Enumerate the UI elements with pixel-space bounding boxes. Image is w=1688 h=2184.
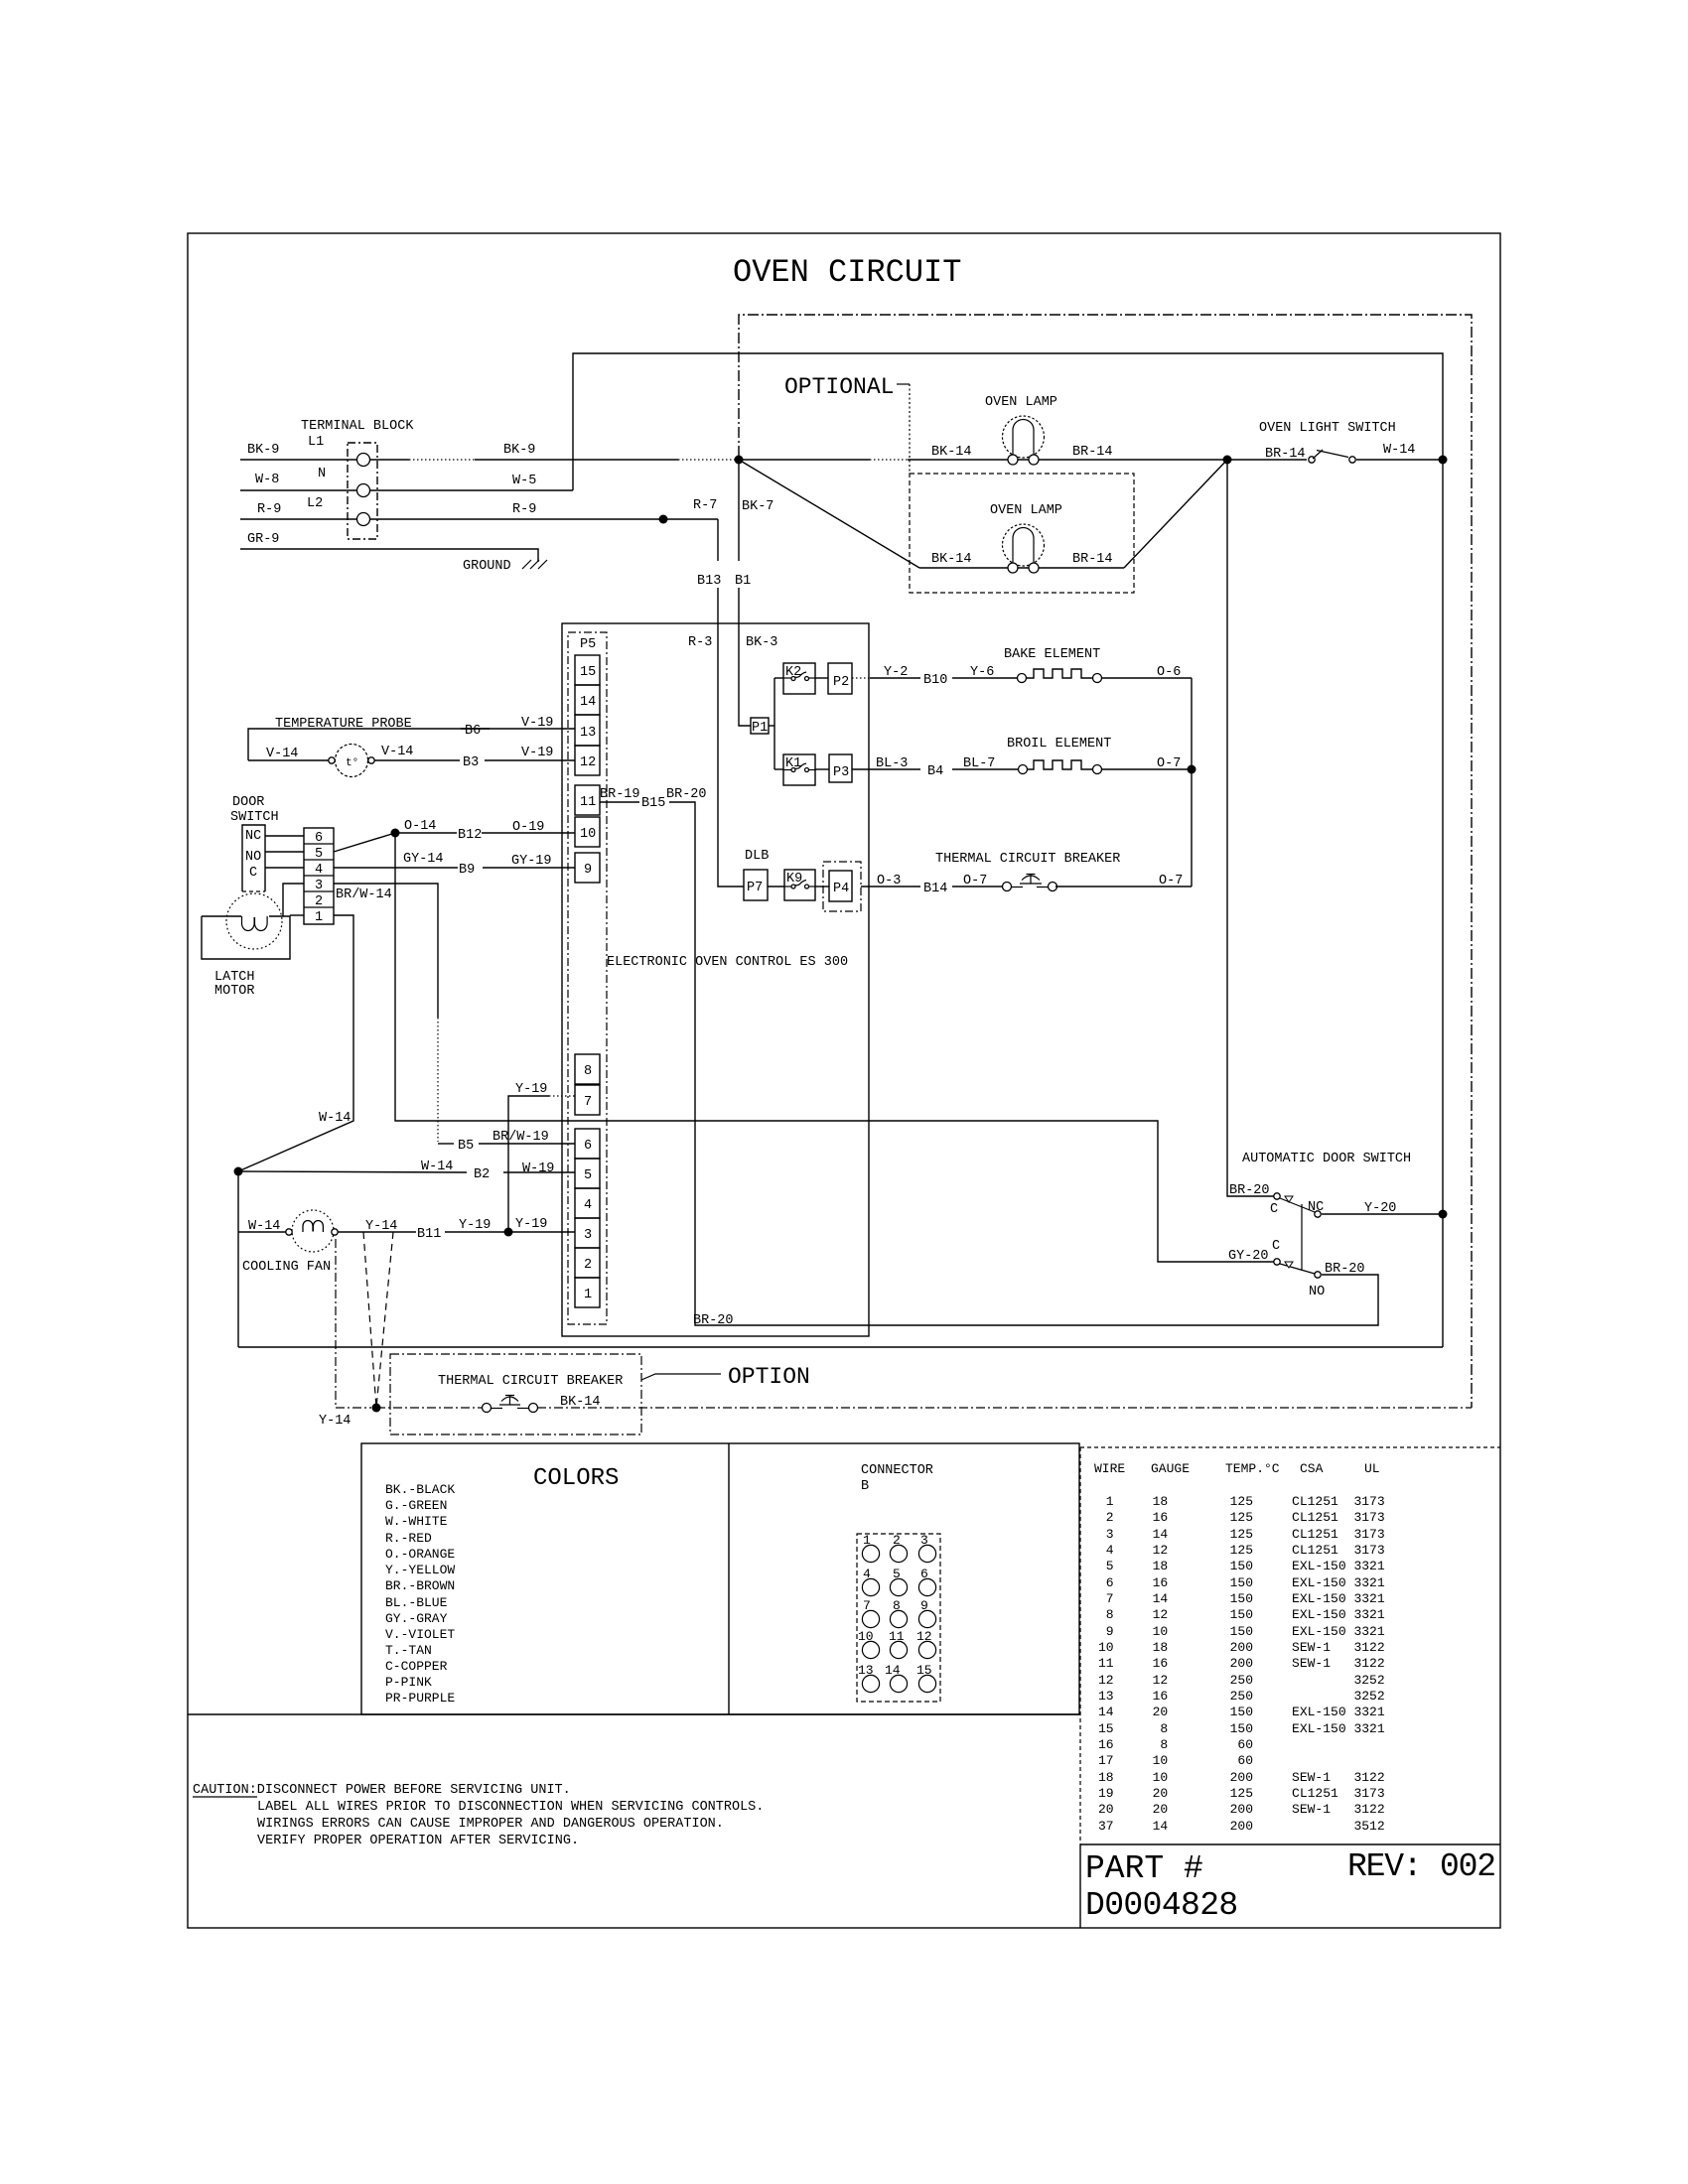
svg-text:12: 12: [916, 1629, 932, 1644]
svg-text:B2: B2: [474, 1167, 490, 1182]
P5 pin 6: [575, 1129, 600, 1159]
svg-text:12: 12: [580, 755, 596, 770]
optional leader tick: [897, 383, 910, 385]
svg-text:BR-20: BR-20: [666, 787, 707, 802]
svg-text:NC: NC: [1308, 1200, 1324, 1215]
svg-text:V-19: V-19: [521, 716, 553, 731]
junction Y-14 optional: [372, 1404, 381, 1413]
svg-text:BAKE ELEMENT: BAKE ELEMENT: [1004, 647, 1100, 662]
svg-text:BK.-BLACK: BK.-BLACK: [385, 1482, 455, 1497]
svg-text:D0004828: D0004828: [1085, 1887, 1238, 1924]
svg-text:SWITCH: SWITCH: [230, 810, 279, 825]
wire P7-K9: [768, 886, 784, 887]
svg-text:P3: P3: [833, 765, 849, 780]
svg-text:O-19: O-19: [512, 820, 544, 835]
wire table frame: [1080, 1446, 1500, 1448]
P5 pin 8: [575, 1054, 600, 1084]
svg-text:19 20 125 CL125: 19 20 125 CL1251 3173: [1098, 1786, 1385, 1801]
svg-text:P-PINK: P-PINK: [385, 1675, 432, 1690]
svg-text:7 14 150 EXL-15: 7 14 150 EXL-150 3321: [1098, 1591, 1385, 1606]
svg-text:GAUGE: GAUGE: [1151, 1461, 1190, 1476]
svg-text:O.-ORANGE: O.-ORANGE: [385, 1547, 455, 1562]
svg-text:Y-14: Y-14: [365, 1219, 397, 1234]
svg-text:W-14: W-14: [421, 1160, 453, 1174]
wire diagonal from lamp2 right: [1124, 460, 1227, 568]
cooling fan: [286, 1210, 338, 1252]
svg-text:P5: P5: [580, 637, 596, 652]
svg-text:BR/W-14: BR/W-14: [336, 887, 392, 902]
svg-text:NC: NC: [245, 829, 261, 844]
svg-text:BR-19: BR-19: [600, 787, 640, 802]
svg-text:11: 11: [889, 1629, 905, 1644]
broil element: [1019, 760, 1102, 774]
connector pin numbers: [858, 1533, 932, 1678]
temperature probe bulb: [329, 745, 374, 777]
terminal block body: [348, 443, 377, 539]
svg-text:V-19: V-19: [521, 746, 553, 760]
wire pin3 left to latch: [283, 884, 304, 916]
wire Y-19 riser to pin 7: [508, 1096, 549, 1232]
svg-text:TERMINAL BLOCK: TERMINAL BLOCK: [301, 419, 414, 434]
P5 pin 14: [575, 685, 600, 715]
wire B5 / BR/W-19 to pin 6: [438, 1143, 454, 1145]
svg-text:GY-19: GY-19: [511, 854, 552, 869]
svg-text:BR-14: BR-14: [1072, 445, 1113, 460]
svg-text:P4: P4: [833, 882, 849, 896]
svg-text:BK-9: BK-9: [247, 443, 279, 458]
svg-text:TEMPERATURE PROBE: TEMPERATURE PROBE: [275, 717, 412, 732]
optional leader dotted drop: [909, 384, 911, 474]
svg-text:R-9: R-9: [512, 502, 536, 517]
svg-text:Y-19: Y-19: [515, 1082, 547, 1097]
svg-text:10: 10: [580, 827, 596, 842]
svg-text:Y-20: Y-20: [1364, 1201, 1396, 1216]
wire NO to pin5: [265, 851, 304, 853]
svg-text:W-5: W-5: [512, 474, 536, 488]
relay coil P2: [828, 663, 852, 694]
svg-text:THERMAL CIRCUIT BREAKER: THERMAL CIRCUIT BREAKER: [935, 852, 1120, 867]
wire GR-9: [240, 549, 538, 562]
svg-text:R-3: R-3: [688, 635, 712, 650]
wire W-8 / W-5: [240, 489, 573, 491]
switch link bar: [1301, 1204, 1303, 1271]
latch motor body: [202, 916, 290, 959]
svg-text:PART #: PART #: [1085, 1850, 1203, 1887]
svg-text:13 16 250: 13 16 250 3252: [1098, 1689, 1385, 1704]
svg-text:BK-3: BK-3: [746, 635, 777, 650]
svg-text:R-9: R-9: [257, 502, 281, 517]
svg-text:W.-WHITE: W.-WHITE: [385, 1514, 448, 1529]
svg-text:W-14: W-14: [319, 1111, 351, 1126]
svg-text:O-7: O-7: [1157, 756, 1181, 771]
part number box: [1080, 1843, 1500, 1845]
svg-text:2: 2: [584, 1258, 592, 1273]
terminal circles: [357, 454, 370, 467]
P5 pin 15: [575, 655, 600, 685]
wire Y-20: [1322, 1213, 1443, 1215]
wire BL-3/B4/BL-7 broil row: [852, 768, 920, 770]
svg-text:V.-VIOLET: V.-VIOLET: [385, 1627, 455, 1642]
svg-text:3: 3: [920, 1533, 928, 1548]
connector P5 dashed box: [568, 632, 607, 1324]
svg-text:4 12 125 CL1251: 4 12 125 CL1251 3173: [1098, 1543, 1385, 1558]
wire K2-P2: [815, 677, 828, 679]
ground symbol: [522, 560, 547, 569]
svg-text:B9: B9: [459, 863, 475, 878]
wire table header: [1094, 1461, 1380, 1476]
svg-text:Y.-YELLOW: Y.-YELLOW: [385, 1563, 455, 1577]
wire NC to pin6: [265, 835, 304, 837]
svg-text:B1: B1: [735, 574, 751, 589]
wire B13 / R-3 vertical: [717, 519, 719, 561]
svg-text:BL-7: BL-7: [963, 756, 995, 771]
svg-text:O-14: O-14: [404, 819, 436, 834]
svg-text:V-14: V-14: [266, 747, 298, 761]
svg-text:N: N: [318, 467, 326, 481]
svg-text:15: 15: [580, 665, 596, 680]
wire O-3/B14/O-7 tcb row: [861, 886, 920, 887]
colors/connector divider: [728, 1443, 730, 1714]
junction W-14 left: [234, 1167, 243, 1176]
svg-text:NO: NO: [245, 850, 261, 865]
wire Y-2/B10/Y-6 bake row: [870, 677, 920, 679]
svg-text:BR-20: BR-20: [693, 1313, 734, 1328]
bake element: [1018, 669, 1102, 683]
svg-text:6: 6: [584, 1139, 592, 1154]
wire W-14/B2/W-19 to pin 5: [238, 1171, 467, 1172]
svg-text:16 8 60: 16 8 60: [1098, 1737, 1253, 1752]
svg-text:OVEN LIGHT SWITCH: OVEN LIGHT SWITCH: [1259, 421, 1396, 436]
wire diagonal to lamp2 left: [739, 460, 919, 568]
svg-text:4: 4: [315, 863, 323, 878]
svg-text:15 8 150 EXL-1: 15 8 150 EXL-150 3321: [1098, 1721, 1385, 1736]
colors/connector box: [361, 1443, 1079, 1714]
svg-text:DLB: DLB: [745, 849, 769, 864]
junction R-9/R-7: [659, 515, 668, 524]
relay contact K1: [783, 754, 815, 785]
svg-text:Y-19: Y-19: [515, 1217, 547, 1232]
wire bake-broil-tcb bus: [1191, 678, 1193, 887]
svg-text:Y-14: Y-14: [319, 1414, 351, 1429]
optional dash-dot fan drop: [336, 1239, 371, 1408]
dashed box around optional lamp: [910, 474, 1134, 593]
svg-text:REV: 002: REV: 002: [1347, 1848, 1495, 1885]
wire pin1 right W-14: [238, 915, 353, 1171]
P5 pin 11: [575, 785, 600, 815]
wire pin1 left to latch: [290, 914, 304, 916]
wire K1-P3: [815, 768, 829, 770]
P5 pin 13: [575, 715, 600, 746]
P5 pin 1: [575, 1278, 600, 1307]
relay contact K9: [784, 870, 815, 900]
svg-text:DOOR: DOOR: [232, 795, 264, 810]
svg-text:O-6: O-6: [1157, 665, 1181, 680]
wire C to pin4: [265, 867, 304, 869]
svg-text:CSA: CSA: [1300, 1461, 1324, 1476]
wire W net left riser: [237, 1171, 239, 1347]
svg-text:TEMP.°C: TEMP.°C: [1225, 1461, 1280, 1476]
relay coil P4 with dashed box: [823, 862, 861, 911]
svg-text:2 16 125 CL1251: 2 16 125 CL1251 3173: [1098, 1510, 1385, 1525]
svg-text:B14: B14: [923, 882, 947, 896]
svg-text:BR-20: BR-20: [1229, 1183, 1270, 1198]
svg-text:OVEN CIRCUIT: OVEN CIRCUIT: [733, 254, 961, 291]
wire pin3 right to B5 riser: [334, 884, 438, 1018]
svg-text:6: 6: [315, 831, 323, 846]
svg-text:11: 11: [580, 795, 596, 810]
svg-text:8: 8: [893, 1598, 901, 1613]
svg-text:B4: B4: [927, 764, 943, 779]
svg-text:BK-7: BK-7: [742, 499, 774, 514]
svg-text:GY-14: GY-14: [403, 852, 444, 867]
svg-text:BR/W-19: BR/W-19: [492, 1130, 549, 1145]
svg-text:CAUTION:DISCONNECT POWER BEFOR: CAUTION:DISCONNECT POWER BEFORE SERVICIN…: [193, 1783, 571, 1798]
svg-text:C: C: [249, 866, 257, 881]
wire V-14 probe row: [248, 759, 329, 761]
svg-text:17 10 60: 17 10 60: [1098, 1753, 1253, 1768]
junction W-14 right: [1439, 456, 1448, 465]
svg-text:4: 4: [863, 1567, 871, 1581]
svg-text:14: 14: [580, 695, 596, 710]
door switch body: [242, 825, 265, 891]
svg-text:14: 14: [885, 1663, 901, 1678]
svg-text:10 18 200 SEW-1: 10 18 200 SEW-1 3122: [1098, 1640, 1385, 1655]
svg-text:L1: L1: [308, 435, 324, 450]
svg-text:W-14: W-14: [248, 1219, 280, 1234]
wire B6 to pin 13: [461, 728, 575, 730]
wire BK-14 lamp row: [739, 459, 1307, 461]
P5 pin 2: [575, 1248, 600, 1278]
oven lamp 1: [1003, 416, 1045, 465]
svg-text:B13: B13: [697, 574, 721, 589]
svg-text:GY.-GRAY: GY.-GRAY: [385, 1611, 448, 1626]
P5 pin 7: [575, 1085, 600, 1115]
svg-text:9: 9: [920, 1598, 928, 1613]
oven lamp 2: [1003, 524, 1045, 573]
svg-text:37 14 200: 37 14 200 3512: [1098, 1819, 1385, 1834]
svg-text:NO: NO: [1309, 1285, 1325, 1299]
junction O-14: [391, 829, 400, 838]
svg-text:UL: UL: [1364, 1461, 1380, 1476]
svg-text:LABEL ALL WIRES PRIOR TO DISCO: LABEL ALL WIRES PRIOR TO DISCONNECTION W…: [257, 1800, 764, 1815]
svg-text:R.-RED: R.-RED: [385, 1531, 432, 1546]
P5 pin 10: [575, 817, 600, 847]
svg-text:B6: B6: [465, 724, 481, 739]
relay coil P7: [744, 870, 768, 900]
svg-text:1: 1: [315, 910, 323, 925]
wire lamp2 row: [919, 567, 1124, 569]
wire W-5/W-14 net top run: [573, 353, 1443, 1347]
svg-text:R-7: R-7: [693, 498, 717, 513]
P5 pin 4: [575, 1188, 600, 1218]
svg-text:C: C: [1270, 1202, 1278, 1217]
svg-text:WIRINGS ERRORS CAN CAUSE IMPRO: WIRINGS ERRORS CAN CAUSE IMPROPER AND DA…: [257, 1817, 724, 1832]
svg-text:C-COPPER: C-COPPER: [385, 1659, 448, 1674]
svg-text:BL.-BLUE: BL.-BLUE: [385, 1595, 448, 1610]
svg-text:P1: P1: [752, 721, 768, 736]
svg-text:O-3: O-3: [877, 874, 901, 888]
svg-text:Y-6: Y-6: [970, 665, 994, 680]
junction Y-20 right: [1439, 1210, 1448, 1219]
svg-text:3 14 125 CL1251: 3 14 125 CL1251 3173: [1098, 1527, 1385, 1542]
relay coil P3: [829, 754, 852, 782]
svg-text:AUTOMATIC DOOR SWITCH: AUTOMATIC DOOR SWITCH: [1242, 1152, 1411, 1166]
optional dash-dot enclosure: [739, 315, 1472, 1408]
svg-text:BR-14: BR-14: [1265, 447, 1306, 462]
P5 pin 12: [575, 746, 600, 775]
svg-text:B11: B11: [417, 1227, 441, 1242]
caution underline: [193, 1796, 257, 1798]
connector B pins: [862, 1545, 935, 1692]
svg-text:6 16 150 EXL-15: 6 16 150 EXL-150 3321: [1098, 1575, 1385, 1590]
optional dashed drop B: [376, 1232, 393, 1408]
svg-text:OVEN LAMP: OVEN LAMP: [985, 395, 1057, 410]
svg-text:P7: P7: [747, 881, 763, 895]
wire BK-9 dotted segments: [409, 459, 475, 461]
svg-text:OPTION: OPTION: [728, 1364, 810, 1390]
thermal circuit breaker 1: [1003, 875, 1057, 891]
option thermal breaker dashed box: [390, 1354, 641, 1434]
svg-text:CONNECTOR: CONNECTOR: [861, 1463, 933, 1478]
wire O-14 to GY-20 C: [395, 833, 1274, 1262]
svg-text:GY-20: GY-20: [1228, 1249, 1269, 1264]
svg-text:O-7: O-7: [1159, 874, 1183, 888]
svg-text:C: C: [1272, 1239, 1280, 1254]
svg-text:WIRE: WIRE: [1094, 1461, 1125, 1476]
junction BK-9/B1: [735, 456, 744, 465]
svg-text:P2: P2: [833, 675, 849, 690]
svg-text:B: B: [861, 1479, 869, 1494]
svg-text:PR-PURPLE: PR-PURPLE: [385, 1691, 455, 1706]
svg-text:OPTIONAL: OPTIONAL: [784, 374, 894, 400]
svg-text:W-8: W-8: [255, 473, 279, 487]
optional dashed drop A: [363, 1232, 376, 1408]
svg-text:1 18 125 CL1251: 1 18 125 CL1251 3173: [1098, 1494, 1385, 1509]
wire Y-14/B11/Y-19 fan to pin 3: [338, 1231, 416, 1233]
svg-text:15: 15: [916, 1663, 932, 1678]
wire GY-14 / B9 / GY-19 to pin 9: [334, 867, 458, 869]
svg-text:B15: B15: [641, 796, 665, 811]
svg-text:7: 7: [863, 1598, 871, 1613]
svg-text:3: 3: [584, 1228, 592, 1243]
svg-text:BK-14: BK-14: [931, 445, 972, 460]
automatic door switch upper (C-NC): [1274, 1193, 1321, 1217]
relay P1: [751, 718, 769, 734]
svg-text:BR.-BROWN: BR.-BROWN: [385, 1578, 455, 1593]
svg-text:2: 2: [893, 1533, 901, 1548]
svg-text:3: 3: [315, 879, 323, 893]
wire bake out / O-6: [1101, 677, 1192, 679]
wire B1 / BK-3 vertical: [738, 460, 740, 561]
svg-text:COOLING FAN: COOLING FAN: [242, 1260, 331, 1275]
svg-text:t°: t°: [346, 757, 358, 769]
svg-text:4: 4: [584, 1198, 592, 1213]
svg-text:8: 8: [584, 1064, 592, 1079]
P5 pin 9: [575, 853, 600, 883]
wire BK-9 left: [240, 459, 739, 461]
wire tcb out / O-7: [1055, 886, 1192, 887]
wire option tcb dash-dot left: [376, 1407, 484, 1409]
svg-text:8 12 150 EXL-15: 8 12 150 EXL-150 3321: [1098, 1607, 1385, 1622]
svg-text:VERIFY PROPER OPERATION AFTER: VERIFY PROPER OPERATION AFTER SERVICING.: [257, 1834, 579, 1848]
svg-text:B12: B12: [458, 828, 482, 843]
P5 pin 5: [575, 1159, 600, 1188]
option leader: [641, 1374, 721, 1380]
wire option tcb dash-dot right: [537, 1407, 1472, 1409]
automatic door switch lower (C-NO): [1274, 1259, 1321, 1278]
svg-text:GROUND: GROUND: [463, 559, 511, 574]
svg-text:Y-19: Y-19: [459, 1218, 491, 1233]
relay contact K2: [783, 663, 815, 694]
wire P2 out dotted: [852, 677, 870, 679]
svg-text:9 10 150 EXL-15: 9 10 150 EXL-150 3321: [1098, 1624, 1385, 1639]
svg-text:V-14: V-14: [381, 745, 413, 759]
svg-text:GR-9: GR-9: [247, 532, 279, 547]
wire W net bottom run: [238, 1346, 1443, 1348]
svg-text:20 20 200 SEW-1: 20 20 200 SEW-1 3122: [1098, 1802, 1385, 1817]
junction broil bus: [1188, 765, 1196, 774]
junction Y-19: [504, 1228, 513, 1237]
svg-text:5 18 150 EXL-15: 5 18 150 EXL-150 3321: [1098, 1559, 1385, 1573]
svg-text:G.-GREEN: G.-GREEN: [385, 1498, 447, 1513]
svg-text:LATCH: LATCH: [214, 970, 255, 985]
svg-text:14 20 150 EXL-1: 14 20 150 EXL-150 3321: [1098, 1705, 1385, 1719]
svg-text:B3: B3: [463, 755, 479, 770]
svg-text:7: 7: [584, 1095, 592, 1110]
wire table rows: [1098, 1494, 1385, 1834]
svg-text:W-14: W-14: [1383, 443, 1415, 458]
oven light switch: [1309, 450, 1355, 463]
svg-text:5: 5: [584, 1168, 592, 1183]
wire K9-P4: [815, 886, 829, 887]
svg-text:B10: B10: [923, 673, 947, 688]
svg-text:BROIL ELEMENT: BROIL ELEMENT: [1007, 737, 1111, 751]
wire fan left W-14: [238, 1231, 286, 1233]
svg-text:5: 5: [315, 847, 323, 862]
svg-text:2: 2: [315, 894, 323, 909]
wire W-14 to right junction: [1356, 459, 1443, 461]
svg-text:OVEN LAMP: OVEN LAMP: [990, 503, 1062, 518]
svg-text:13: 13: [580, 726, 596, 741]
section separator line: [188, 1713, 1080, 1715]
wire diagonal pin5 to O-14 junction: [334, 833, 395, 852]
svg-text:5: 5: [893, 1567, 901, 1581]
svg-text:BK-14: BK-14: [931, 552, 972, 567]
svg-text:BR-20: BR-20: [1325, 1262, 1365, 1277]
svg-text:BL-3: BL-3: [876, 756, 908, 771]
svg-text:Y-2: Y-2: [884, 665, 908, 680]
wire P1 to contact rows: [769, 725, 774, 727]
svg-text:O-7: O-7: [963, 874, 987, 888]
svg-text:BK-9: BK-9: [503, 443, 535, 458]
wire broil out / O-7: [1101, 768, 1192, 770]
svg-text:ELECTRONIC OVEN CONTROL ES 300: ELECTRONIC OVEN CONTROL ES 300: [607, 955, 848, 970]
door connector pin column: [304, 828, 334, 924]
svg-text:T.-TAN: T.-TAN: [385, 1643, 432, 1658]
junction lamp/BR-20: [1223, 456, 1232, 465]
svg-text:BR-14: BR-14: [1072, 552, 1113, 567]
svg-text:COLORS: COLORS: [533, 1465, 619, 1492]
svg-text:6: 6: [920, 1567, 928, 1581]
svg-text:12 12 250: 12 12 250 3252: [1098, 1673, 1385, 1688]
wire R-9 / R-7: [240, 518, 718, 520]
electronic oven control box: [562, 623, 869, 1336]
svg-text:11 16 200 SEW-1: 11 16 200 SEW-1 3122: [1098, 1656, 1385, 1671]
svg-text:18 10 200 SEW-1: 18 10 200 SEW-1 3122: [1098, 1770, 1385, 1785]
svg-text:MOTOR: MOTOR: [214, 984, 255, 999]
svg-text:B5: B5: [458, 1139, 474, 1154]
svg-text:W-19: W-19: [522, 1161, 554, 1176]
